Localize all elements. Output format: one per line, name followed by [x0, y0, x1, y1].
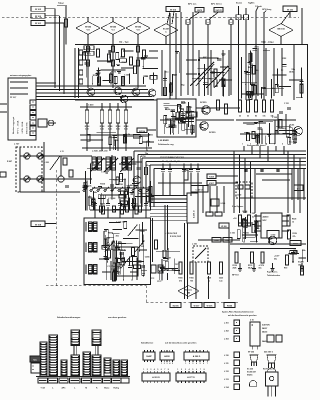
svg-text:Ruhig: Ruhig: [114, 388, 120, 390]
svg-text:C 137: C 137: [107, 266, 113, 268]
svg-text:SF245: SF245: [135, 26, 142, 29]
svg-text:C 158: C 158: [250, 213, 255, 215]
svg-text:1k: 1k: [292, 222, 294, 224]
svg-text:BB: BB: [187, 292, 191, 294]
svg-text:SF245: SF245: [110, 26, 117, 29]
svg-text:620 3SV 2: 620 3SV 2: [264, 352, 273, 354]
svg-text:S042P: S042P: [146, 355, 152, 358]
svg-text:L.143 SL/78 W: L.143 SL/78 W: [165, 232, 177, 235]
svg-text:2: 2: [147, 369, 148, 371]
svg-text:0.169: 0.169: [221, 203, 226, 205]
svg-text:SC 236: SC 236: [247, 369, 253, 371]
svg-text:4: 4: [154, 368, 155, 371]
svg-text:5A302: 5A302: [262, 331, 267, 334]
svg-text:5A307: 5A307: [262, 327, 267, 330]
svg-text:1: 1: [143, 369, 144, 371]
svg-text:R161: R161: [87, 53, 91, 55]
svg-text:Abstimmaggregat: Abstimmaggregat: [12, 116, 15, 134]
svg-text:R 607: R 607: [7, 161, 12, 163]
svg-text:P205: P205: [189, 278, 193, 280]
svg-text:5: 5: [157, 369, 158, 371]
svg-text:Stumm: Stumm: [185, 289, 192, 292]
svg-text:-UKW- 901A: -UKW- 901A: [21, 121, 24, 134]
svg-text:C 154: C 154: [272, 116, 277, 119]
svg-text:4: 4: [266, 143, 267, 146]
svg-text:4: 4: [169, 362, 170, 365]
svg-text:4: 4: [189, 368, 190, 371]
svg-text:W 307: W 307: [194, 305, 201, 307]
svg-text:A 301 D: A 301 D: [193, 210, 196, 218]
svg-text:Tag/Ein: Tag/Ein: [248, 2, 254, 4]
svg-text:W 108: W 108: [35, 224, 42, 226]
svg-text:7: 7: [207, 363, 208, 365]
svg-text:W 110: W 110: [287, 9, 294, 11]
svg-text:R70: R70: [284, 268, 287, 270]
svg-text:Mono: Mono: [104, 388, 110, 390]
svg-text:Telefonbuchse: Telefonbuchse: [267, 275, 280, 277]
svg-text:SU306: SU306: [172, 305, 179, 307]
svg-text:5: 5: [200, 363, 201, 365]
svg-text:Netz: Netz: [33, 358, 37, 361]
svg-text:A 290 D: A 290 D: [193, 355, 201, 358]
svg-text:SF 305: SF 305: [248, 352, 254, 354]
svg-text:T tief: T tief: [41, 387, 46, 390]
svg-text:AFC: AFC: [203, 56, 208, 59]
svg-text:8: 8: [204, 369, 205, 371]
svg-text:6: 6: [282, 144, 283, 146]
svg-text:auf die Anschlussseite gesehen: auf die Anschlussseite gesehen: [228, 314, 257, 317]
svg-text:1: 1: [161, 363, 162, 365]
svg-text:Spulen,Filter, Modulschaltelem: Spulen,Filter, Modulschaltelemente: [222, 311, 254, 314]
svg-text:3: 3: [167, 363, 168, 365]
svg-text:1W172: 1W172: [215, 10, 222, 12]
svg-text:39,5k: 39,5k: [289, 124, 295, 126]
svg-text:antennen-eingangsplan: antennen-eingangsplan: [10, 74, 32, 77]
svg-text:C249: C249: [237, 194, 241, 197]
svg-text:6: 6: [196, 369, 197, 371]
svg-text:K107: K107: [209, 183, 214, 185]
svg-text:K108: K108: [209, 176, 214, 178]
svg-text:5: 5: [172, 363, 173, 365]
svg-text:L 285: L 285: [171, 122, 177, 124]
svg-text:AFC: AFC: [62, 387, 67, 390]
svg-text:3: 3: [150, 369, 151, 371]
svg-text:C208: C208: [207, 278, 211, 280]
svg-text:C 156: C 156: [244, 233, 249, 235]
svg-text:C220: C220: [219, 278, 223, 280]
svg-text:L 303: L 303: [224, 339, 229, 341]
svg-text:R115: R115: [248, 265, 252, 267]
svg-text:HF - Teil: HF - Teil: [119, 41, 129, 44]
svg-text:8: 8: [168, 369, 169, 371]
svg-text:SC307: SC307: [163, 29, 170, 31]
svg-text:2: 2: [189, 363, 190, 365]
svg-text:1: 1: [177, 369, 178, 371]
svg-text:HFV 1 - 901A: HFV 1 - 901A: [17, 120, 20, 134]
svg-text:+C377: +C377: [274, 256, 279, 258]
svg-text:L 204 L 202 L 203: L 204 L 202 L 203: [92, 150, 107, 153]
svg-text:L.78: L.78: [101, 204, 105, 206]
svg-text:4: 4: [196, 362, 197, 365]
svg-text:L 727: L 727: [14, 144, 20, 146]
svg-text:3: 3: [192, 363, 193, 365]
svg-text:C.69: C.69: [135, 204, 139, 206]
svg-text:auf die Anschlussseite gesehen: auf die Anschlussseite gesehen: [165, 342, 197, 345]
svg-text:R162: R162: [87, 48, 91, 50]
svg-text:SC239: SC239: [200, 102, 207, 104]
svg-text:C 148: C 148: [124, 74, 130, 77]
svg-text:NF Teil: NF Teil: [232, 275, 239, 277]
svg-text:3n: 3n: [252, 216, 254, 218]
svg-text:C172: C172: [150, 278, 154, 280]
svg-text:A 301 D: A 301 D: [152, 376, 160, 379]
svg-text:2: 2: [250, 144, 251, 146]
svg-text:R.64: R.64: [120, 203, 124, 206]
svg-text:SW104: SW104: [139, 130, 145, 133]
svg-text:3: 3: [258, 144, 259, 146]
svg-text:98,2k: 98,2k: [248, 268, 253, 270]
svg-text:11k: 11k: [263, 116, 266, 118]
svg-text:AFC Grenz: AFC Grenz: [211, 3, 222, 6]
svg-text:W 102: W 102: [35, 9, 42, 11]
svg-text:C 199 CO: C 199 CO: [196, 189, 205, 191]
svg-text:5,6KTON: 5,6KTON: [262, 325, 270, 327]
svg-text:700: 700: [190, 281, 193, 283]
svg-text:6: 6: [161, 369, 162, 371]
svg-text:7: 7: [200, 369, 201, 371]
svg-text:C173: C173: [157, 281, 161, 283]
svg-text:R100: R100: [178, 278, 182, 280]
svg-text:L.7 R.68: L.7 R.68: [108, 198, 115, 200]
svg-text:BEDY: BEDY: [189, 115, 195, 117]
svg-text:W 200: W 200: [221, 226, 226, 228]
svg-text:W 306: W 306: [207, 305, 214, 307]
svg-text:AFC aus: AFC aus: [188, 3, 197, 6]
svg-text:292k: 292k: [233, 268, 237, 270]
svg-text:L 302: L 302: [224, 331, 229, 333]
svg-text:L 310: L 310: [224, 355, 229, 357]
svg-text:1,5n: 1,5n: [219, 281, 223, 283]
svg-text:1: 1: [242, 144, 243, 146]
svg-text:A2900: A2900: [263, 216, 270, 219]
svg-text:67,5k: 67,5k: [241, 220, 247, 222]
svg-text:53,5k: 53,5k: [262, 88, 268, 90]
svg-text:Feldstaerke reg.: Feldstaerke reg.: [158, 143, 174, 146]
svg-text:A281D: A281D: [164, 355, 170, 358]
svg-text:5k: 5k: [247, 116, 249, 118]
svg-text:R128: R128: [292, 219, 296, 221]
svg-text:R118: R118: [233, 265, 237, 267]
svg-text:3: 3: [185, 369, 186, 371]
svg-text:C 400: C 400: [88, 104, 94, 107]
svg-text:5A402: 5A402: [262, 340, 267, 343]
svg-text:2k: 2k: [239, 116, 241, 118]
svg-text:W 100: W 100: [35, 16, 42, 18]
svg-text:MW LW KW: MW LW KW: [27, 121, 29, 134]
svg-text:SC239: SC239: [209, 132, 216, 134]
svg-text:+C376: +C376: [259, 265, 264, 267]
svg-text:6: 6: [203, 363, 204, 365]
svg-text:NFV: NFV: [263, 220, 268, 222]
svg-text:SC306 307: SC306 307: [247, 372, 256, 374]
svg-text:W 101: W 101: [35, 23, 42, 25]
svg-text:C 151: C 151: [284, 103, 289, 105]
svg-text:BB 104: BB 104: [277, 28, 285, 31]
svg-text:GPV-Song: GPV-Song: [262, 9, 272, 11]
svg-text:R 30 56,78 W: R 30 56,78 W: [170, 236, 181, 238]
svg-text:von oben gesehen: von oben gesehen: [108, 317, 127, 319]
svg-text:L 311: L 311: [224, 363, 228, 365]
svg-text:2 10: 2 10: [250, 320, 254, 322]
svg-text:5: 5: [274, 144, 275, 146]
svg-text:W 1: W 1: [297, 188, 300, 190]
svg-text:ZF 10,7: ZF 10,7: [10, 97, 16, 99]
svg-text:50u: 50u: [274, 258, 277, 260]
svg-text:L 31: L 31: [60, 151, 64, 153]
svg-text:1W75: 1W75: [197, 10, 203, 12]
svg-text:HFK - Filter: HFK - Filter: [261, 41, 274, 44]
svg-text:C 155: C 155: [230, 233, 235, 235]
svg-text:69,5k: 69,5k: [121, 249, 127, 251]
svg-text:8k: 8k: [255, 116, 257, 118]
svg-text:C 1.04 11 p: C 1.04 11 p: [116, 221, 126, 224]
svg-text:Schalterbezeichnungen: Schalterbezeichnungen: [57, 316, 81, 319]
svg-text:L 150: L 150: [192, 244, 197, 246]
svg-text:W 106: W 106: [170, 9, 177, 11]
svg-text:L 286: L 286: [114, 140, 120, 142]
svg-text:2: 2: [164, 363, 165, 365]
svg-text:L.09 BNER: L.09 BNER: [158, 140, 169, 142]
svg-text:SS216: SS216: [247, 375, 252, 377]
svg-text:L 313: L 313: [224, 379, 229, 381]
svg-text:7: 7: [164, 369, 165, 371]
svg-text:R129: R129: [293, 233, 297, 235]
svg-text:Schaltkreise: Schaltkreise: [141, 342, 154, 345]
svg-text:W354: W354: [227, 304, 233, 307]
svg-text:6.205: 6.205: [214, 240, 218, 242]
svg-text:5: 5: [192, 369, 193, 371]
svg-text:2: 2: [181, 369, 182, 371]
svg-text:A 277 D: A 277 D: [187, 376, 195, 379]
svg-text:L 200: L 200: [44, 162, 49, 164]
svg-text:L 314: L 314: [224, 386, 229, 389]
svg-text:1 Nacht: 1 Nacht: [255, 5, 262, 8]
svg-text:50u: 50u: [259, 268, 262, 270]
svg-text:27k: 27k: [293, 236, 296, 238]
svg-text:5 mal Spuren: 5 mal Spuren: [232, 206, 243, 208]
svg-text:1: 1: [185, 363, 186, 365]
svg-text:57k: 57k: [179, 281, 182, 283]
svg-text:90,5k: 90,5k: [275, 134, 281, 136]
svg-text:L 301: L 301: [224, 323, 229, 325]
svg-text:L 247: L 247: [166, 257, 172, 260]
svg-text:L 312: L 312: [224, 371, 229, 373]
svg-text:98,5k: 98,5k: [282, 128, 288, 130]
svg-text:Stumm: Stumm: [236, 1, 242, 4]
svg-text:SF245: SF245: [85, 26, 92, 29]
svg-text:+C4: +C4: [233, 217, 236, 220]
